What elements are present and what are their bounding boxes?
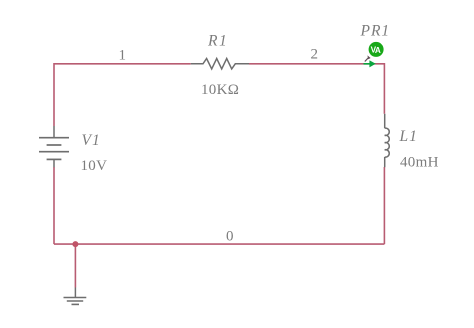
resistor R1 value label 10KΩ <box>201 82 239 98</box>
probe PR1 needle <box>365 55 371 61</box>
probe PR1 body (green circle with VA) <box>369 42 384 57</box>
svg-text:0: 0 <box>226 229 234 245</box>
svg-text:40mH: 40mH <box>400 155 439 171</box>
battery V1 designator label <box>82 132 101 149</box>
wire right vertical lower <box>383 167 385 244</box>
svg-text:1: 1 <box>119 48 127 64</box>
node 2 label <box>311 46 319 62</box>
svg-text:V1: V1 <box>82 132 101 149</box>
svg-text:10V: 10V <box>81 158 108 174</box>
svg-text:10KΩ: 10KΩ <box>201 82 239 98</box>
inductor L1 <box>385 114 390 167</box>
junction dot <box>72 241 78 247</box>
wire left vertical upper <box>53 63 55 126</box>
resistor R1 <box>191 59 249 69</box>
svg-text:L1: L1 <box>399 128 418 145</box>
resistor R1 designator label <box>207 33 228 50</box>
inductor L1 value label 40mH <box>400 155 439 171</box>
svg-text:2: 2 <box>311 46 319 62</box>
svg-text:PR1: PR1 <box>360 23 391 40</box>
svg-text:R1: R1 <box>207 33 228 50</box>
node 1 label <box>119 48 127 64</box>
probe PR1 designator label <box>360 23 391 40</box>
wire top-left segment (node 1) <box>54 63 191 65</box>
svg-text:A: A <box>375 46 381 55</box>
wire ground stub <box>74 244 76 287</box>
inductor L1 designator label <box>399 128 418 145</box>
battery V1 <box>39 126 69 167</box>
wire top-right segment (node 2) <box>249 63 384 65</box>
wire right vertical upper <box>383 63 385 114</box>
probe PR1 arrow on wire <box>364 60 376 67</box>
ground <box>64 288 87 305</box>
wire left vertical lower <box>53 167 55 244</box>
battery V1 value label 10V <box>81 158 108 174</box>
node 0 label <box>226 229 234 245</box>
wire bottom segment (node 0) <box>54 243 384 245</box>
